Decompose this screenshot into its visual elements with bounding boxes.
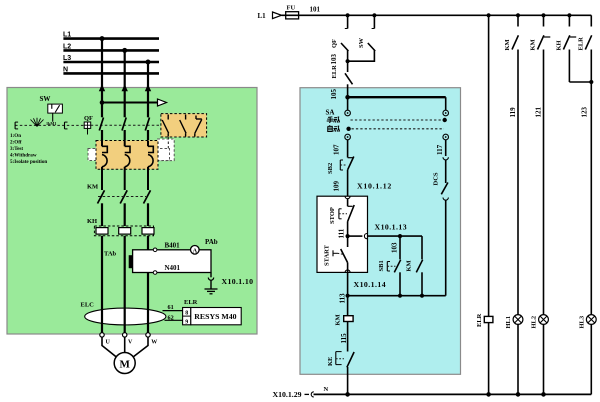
contact KH alarm (NC) xyxy=(556,15,592,82)
connector X10.1.29 xyxy=(273,390,314,399)
svg-text:ELR: ELR xyxy=(331,65,338,79)
svg-text:109: 109 xyxy=(333,181,341,192)
node 105 xyxy=(330,89,338,100)
box: local pushbutton station xyxy=(317,196,368,272)
drawout plug symbols phase 2 xyxy=(125,141,130,190)
selector SA position row auto xyxy=(328,125,444,131)
switch SW (breaker motor operator) xyxy=(40,95,63,122)
svg-text:121: 121 xyxy=(535,107,543,118)
node 117 xyxy=(436,140,446,156)
wire phase2 through ELC xyxy=(124,309,126,333)
svg-text:PAb: PAb xyxy=(205,238,218,246)
svg-text:HL3: HL3 xyxy=(579,315,586,328)
svg-text:KH: KH xyxy=(556,40,563,50)
wire phase1 through ELC xyxy=(101,309,103,333)
svg-text:L1: L1 xyxy=(258,12,267,20)
node 109 xyxy=(333,181,341,192)
pushbutton SB1 (NO) xyxy=(378,236,401,296)
svg-text:ELR: ELR xyxy=(578,37,585,51)
coil KM xyxy=(335,296,354,352)
selector SA header wire xyxy=(345,95,445,110)
selector SA terminal right-top xyxy=(443,110,449,116)
svg-text:62: 62 xyxy=(168,315,174,322)
svg-text:115: 115 xyxy=(340,333,348,344)
connector socket lower on DCS line xyxy=(443,198,448,296)
node 113 xyxy=(338,293,346,304)
svg-text:3:Test: 3:Test xyxy=(10,146,23,152)
pushbutton SB2 (NC) xyxy=(327,157,354,197)
svg-text:KM: KM xyxy=(530,39,537,50)
drawout plug symbols phase 3 xyxy=(148,141,153,190)
node 101 xyxy=(310,6,321,14)
drawout plug symbols phase 1 xyxy=(102,141,107,190)
wire V to motor xyxy=(124,337,126,352)
pushbutton STOP (NC) xyxy=(329,199,354,237)
svg-text:V: V xyxy=(128,340,133,346)
node 115 xyxy=(340,333,348,344)
svg-text:KE: KE xyxy=(327,357,334,366)
lamp HL1 xyxy=(505,315,523,395)
svg-text:1kM1: 1kM1 xyxy=(46,121,56,126)
bus L1 xyxy=(63,32,159,39)
wire top rail xyxy=(282,13,592,17)
svg-text:1:On: 1:On xyxy=(10,133,21,139)
wire phase1 drop from L1 xyxy=(99,36,105,117)
svg-text:ELR: ELR xyxy=(476,313,483,327)
bus L3 xyxy=(63,55,159,62)
svg-text:X10.1.14: X10.1.14 xyxy=(354,280,387,289)
selector SA position row manual xyxy=(327,117,447,123)
relay ELR terminals 8/9 xyxy=(183,299,198,326)
svg-text:SA: SA xyxy=(326,108,335,116)
wire 62 to ELR relay xyxy=(165,315,183,322)
svg-text:B401: B401 xyxy=(165,242,181,250)
wire meter down lead + connector X10.1.10 xyxy=(208,273,253,289)
aux contact box QF (orange) xyxy=(161,114,207,137)
svg-text:103: 103 xyxy=(330,54,338,65)
node 103 xyxy=(330,54,338,65)
svg-text:9: 9 xyxy=(185,319,188,325)
svg-text:ELC: ELC xyxy=(81,302,95,309)
svg-text:FU: FU xyxy=(287,5,296,12)
contact KM seal-in (NO) xyxy=(406,236,423,296)
relay ELR device xyxy=(476,313,493,394)
contact KE (NO with actuator) xyxy=(327,352,354,395)
svg-text:61: 61 xyxy=(168,304,174,311)
contact KM lamp-1 (NO) xyxy=(504,15,518,314)
svg-text:W: W xyxy=(151,340,157,346)
selector SA terminal left-bottom xyxy=(345,134,351,140)
panel: green power-section background xyxy=(7,88,257,335)
contact ELR (NO) on feeder xyxy=(331,61,353,97)
svg-text:SB1: SB1 xyxy=(378,260,385,271)
breaker QF pole 3 xyxy=(145,118,149,142)
contactor KM pole 2 xyxy=(120,190,127,226)
svg-text:X10.1.10: X10.1.10 xyxy=(222,277,254,286)
ground xyxy=(205,289,218,294)
selector SA terminal left-top xyxy=(345,97,351,116)
svg-text:L1: L1 xyxy=(63,32,71,39)
svg-text:QF: QF xyxy=(331,39,338,48)
mechanical linkage dashed line with manual-operation symbol xyxy=(15,118,84,129)
svg-text:KM: KM xyxy=(504,39,511,50)
earth-leakage CT ELC ellipse xyxy=(81,302,166,325)
wire N rail xyxy=(314,386,592,397)
thermal relay KH element 3 xyxy=(142,228,154,309)
svg-text:HL1: HL1 xyxy=(505,316,512,329)
svg-text:SW: SW xyxy=(40,95,51,103)
svg-text:KM: KM xyxy=(335,314,342,325)
contactor KM pole 1 xyxy=(87,183,105,226)
contact ELR alarm (NO) xyxy=(578,15,594,314)
wire control feed tap with arrow xyxy=(100,99,167,106)
svg-text:5:Isolate position: 5:Isolate position xyxy=(10,159,47,165)
contact KM lamp-2 (NC) xyxy=(530,15,551,314)
svg-text:U: U xyxy=(106,340,111,346)
wire U to motor xyxy=(102,337,117,358)
bus N xyxy=(63,66,159,73)
motor terminal V xyxy=(123,333,134,346)
wire phase3 drop from L3 xyxy=(145,60,151,118)
ammeter PAb xyxy=(191,238,218,254)
breaker QF pole 2 xyxy=(122,118,126,142)
svg-text:TAb: TAb xyxy=(104,251,117,258)
relay RESYS M40 box xyxy=(191,308,241,325)
node 123 xyxy=(580,107,588,118)
svg-text:START: START xyxy=(324,244,331,266)
column ELR supply wire xyxy=(488,15,490,316)
svg-text:4:Withdraw: 4:Withdraw xyxy=(10,152,37,158)
svg-text:103: 103 xyxy=(391,242,399,253)
wire branch bottom rail X10.1.14 xyxy=(346,280,446,298)
thermal relay KH element 1 xyxy=(96,228,108,309)
svg-text:L3: L3 xyxy=(63,55,71,62)
svg-text:119: 119 xyxy=(509,107,517,118)
note list: breaker positions xyxy=(10,133,47,165)
svg-text:N: N xyxy=(324,386,329,393)
box: drawout contacts (orange) xyxy=(96,141,158,170)
box: racking mechanism white dashed xyxy=(88,139,174,161)
svg-text:N401: N401 xyxy=(165,264,181,272)
svg-text:113: 113 xyxy=(338,293,346,304)
node L1 feed arrow xyxy=(258,12,282,20)
wire phase3 through ELC xyxy=(147,309,149,333)
node 107 xyxy=(333,140,348,158)
breaker QF mechanism box xyxy=(84,115,93,135)
contact QF aux (NO) on feeder xyxy=(331,15,348,61)
svg-text:SB2: SB2 xyxy=(327,163,334,174)
svg-text:8: 8 xyxy=(185,311,188,317)
svg-text:SW: SW xyxy=(358,37,365,48)
contactor KM pole 3 xyxy=(144,190,151,226)
svg-text:QF: QF xyxy=(84,115,93,122)
svg-text:X10.1.13: X10.1.13 xyxy=(375,222,408,231)
motor terminal U xyxy=(100,333,111,346)
svg-text:KM: KM xyxy=(87,183,98,190)
box: metering loop B401/N401 xyxy=(133,242,211,275)
svg-text:X10.1.29: X10.1.29 xyxy=(273,390,302,399)
current transformer TAb xyxy=(104,251,132,269)
selector SA label xyxy=(326,108,335,116)
svg-text:123: 123 xyxy=(580,107,588,118)
node 121 xyxy=(535,107,543,118)
svg-text:M: M xyxy=(120,359,131,371)
motor M xyxy=(114,353,135,374)
node 103 branch label xyxy=(391,242,399,253)
breaker QF pole linkage dashed xyxy=(91,124,161,126)
contactor KM linkage dashed xyxy=(98,196,146,198)
lamp HL2 xyxy=(531,315,549,395)
svg-text:KM: KM xyxy=(406,260,413,271)
motor terminal W xyxy=(146,333,158,346)
svg-text:ELR: ELR xyxy=(184,299,198,306)
svg-text:105: 105 xyxy=(330,89,338,100)
node 111 xyxy=(338,228,350,238)
wire phase2 drop from L2 xyxy=(122,48,128,117)
svg-text:HL2: HL2 xyxy=(531,316,538,329)
svg-text:X10.1.12: X10.1.12 xyxy=(357,181,392,190)
breaker QF pole 1 xyxy=(99,118,103,142)
svg-text:STOP: STOP xyxy=(329,207,336,224)
svg-text:A: A xyxy=(193,247,198,254)
lamp HL3 xyxy=(579,315,597,395)
svg-text:101: 101 xyxy=(310,6,321,14)
fuse FU xyxy=(286,5,299,19)
thermal relay KH element 2 xyxy=(119,228,131,309)
contact SW parallel (NO) xyxy=(346,15,376,63)
svg-text:RESYS M40: RESYS M40 xyxy=(194,312,236,321)
wire 61 to ELR relay xyxy=(163,304,183,311)
thermal relay KH box xyxy=(87,218,154,236)
svg-text:117: 117 xyxy=(436,144,444,155)
selector SA terminal right-bottom xyxy=(443,134,449,140)
svg-text:N: N xyxy=(63,66,68,73)
pushbutton START (NO) xyxy=(324,236,348,296)
contact DCS (NO) xyxy=(433,172,448,194)
connector label X10.1.12 xyxy=(357,181,392,190)
svg-text:111: 111 xyxy=(338,228,346,238)
svg-text:L2: L2 xyxy=(63,43,71,50)
svg-text:KH: KH xyxy=(87,218,97,225)
connector socket upper on DCS line xyxy=(443,157,448,183)
svg-text:DCS: DCS xyxy=(433,172,440,185)
node 119 xyxy=(509,107,517,118)
wire branch X10.1.13 xyxy=(348,222,422,238)
wire W to motor xyxy=(132,337,148,358)
svg-text:2:Off: 2:Off xyxy=(10,139,22,145)
panel: cyan control-section background xyxy=(300,88,461,375)
svg-text:107: 107 xyxy=(333,144,341,155)
bus L2 xyxy=(63,43,159,50)
wire dashed link aux box to racking box xyxy=(167,137,169,149)
